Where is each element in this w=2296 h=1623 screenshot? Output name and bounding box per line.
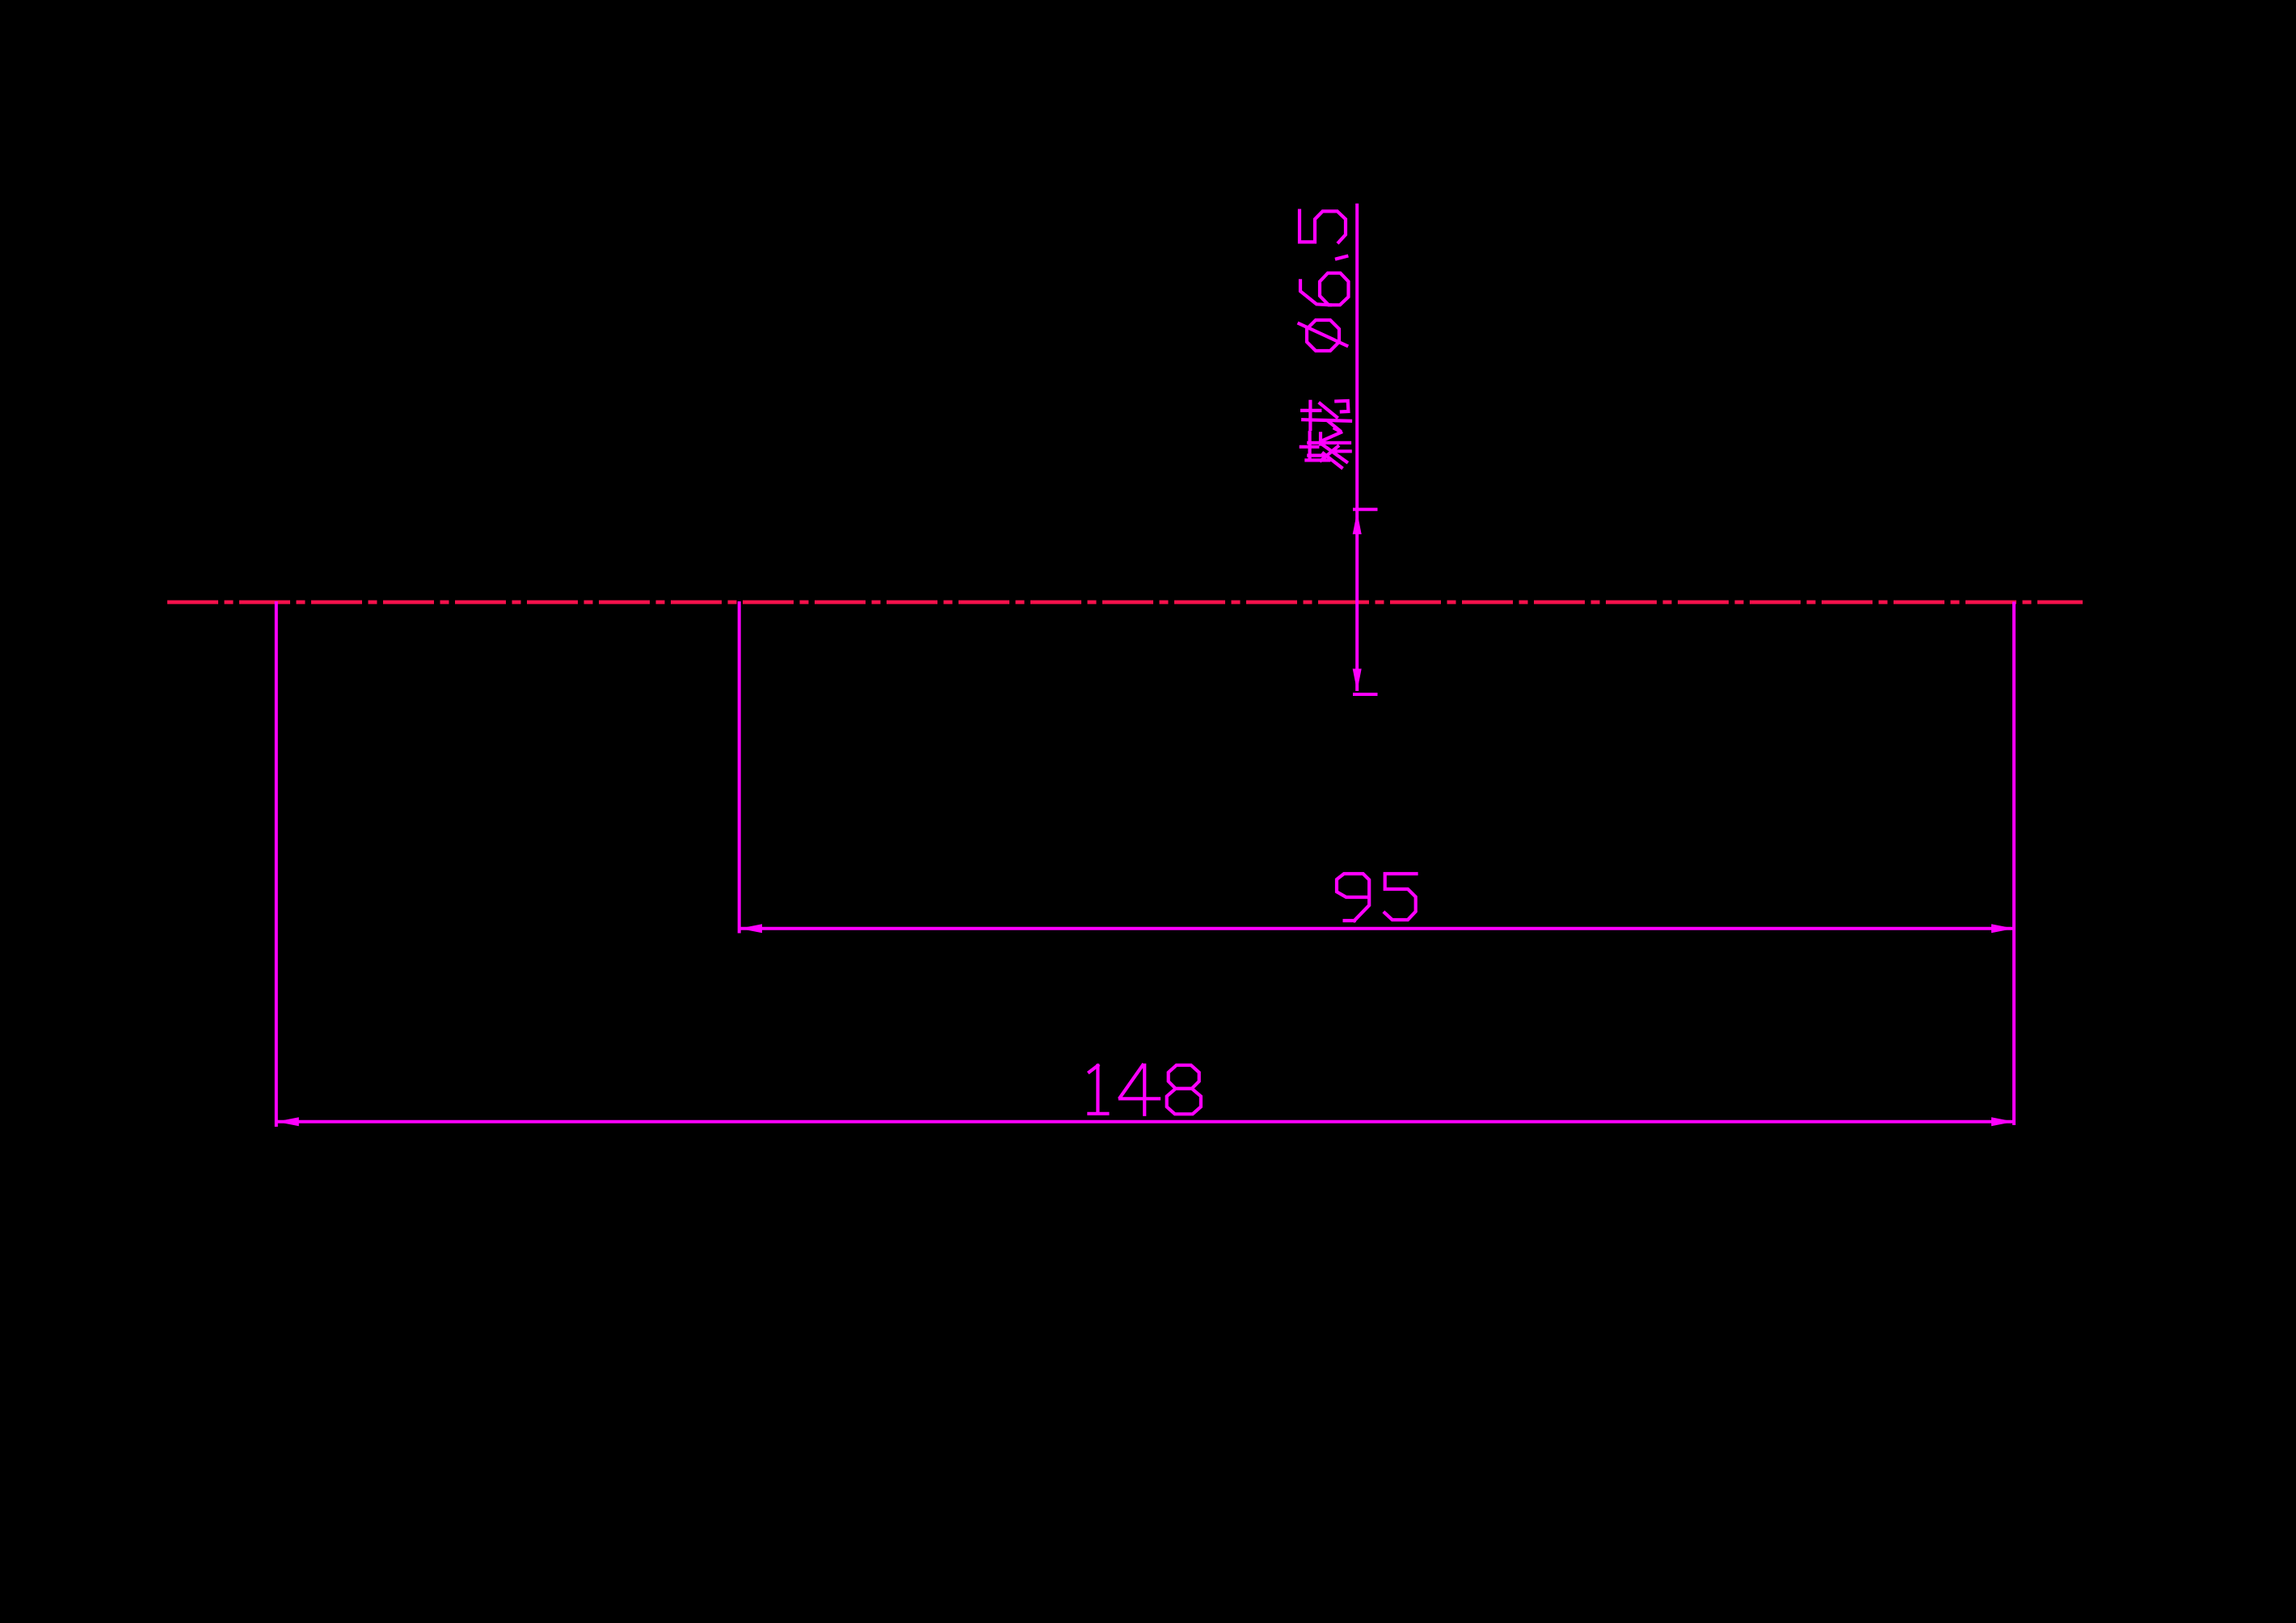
text Ø6.5 (rotated hole size): [1300, 211, 1349, 351]
text 花 (Chinese annotation, rotated): [1302, 401, 1350, 431]
leader line vertical (hole dimension): [1355, 204, 1359, 691]
centerline (red dash-dot axis): [167, 601, 2083, 605]
tick top (hole upper edge): [1353, 508, 1378, 511]
arrowhead 95 left: [739, 924, 762, 933]
arrowhead vertical up: [1353, 512, 1362, 534]
text 148 (dimension value): [1089, 1065, 1201, 1115]
text 95 (dimension value): [1337, 874, 1417, 921]
tick bottom (hole lower edge): [1353, 693, 1378, 696]
dimension line 148: [276, 1120, 2014, 1123]
extension line right (x=2492): [2012, 602, 2016, 1126]
dimension line 95: [739, 927, 2014, 930]
extension line middle (x=914.7): [738, 601, 741, 934]
arrowhead 95 right: [1991, 924, 2014, 933]
arrowhead 148 right: [1991, 1117, 2014, 1126]
text 麻 (Chinese annotation, rotated): [1301, 428, 1350, 467]
extension line left (x=341.8): [275, 601, 278, 1127]
arrowhead 148 left: [276, 1117, 299, 1126]
arrowhead vertical down: [1353, 668, 1362, 691]
